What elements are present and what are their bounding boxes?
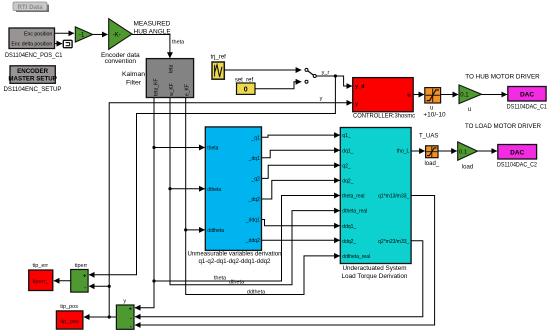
sum block tiperr (71, 263, 88, 292)
block DAC DS1104DAC_C1 (507, 87, 547, 111)
svg-text:tiperr_: tiperr_ (32, 279, 49, 285)
gain -K- Encoder data convention (101, 19, 140, 65)
svg-text:+: + (129, 306, 132, 312)
svg-text:theta: theta (207, 146, 218, 152)
svg-text:trj_ref: trj_ref (211, 55, 227, 61)
wire gain to DAC load (478, 150, 497, 152)
svg-text:DAC: DAC (510, 150, 524, 157)
svg-text:q1_: q1_ (342, 133, 351, 139)
gain 0.1 u (459, 85, 482, 113)
svg-text:theta: theta (214, 276, 227, 282)
wire set_ref to switch (255, 82, 301, 89)
wire Enc delta position to terminator (55, 43, 63, 45)
svg-text:q2*m23/m33_: q2*m23/m33_ (378, 239, 409, 245)
svg-text:y_r: y_r (322, 70, 330, 76)
svg-text:MEASURED: MEASURED (134, 20, 171, 27)
signal generator trj_ref (211, 55, 227, 79)
svg-text:u: u (468, 107, 471, 113)
svg-text:dtheta: dtheta (207, 187, 221, 193)
wire tho_L to saturation load_ (411, 150, 425, 152)
svg-text:convention: convention (105, 58, 137, 65)
svg-text:dq2_: dq2_ (342, 179, 353, 185)
wire y_r (switch to controller y_d) (316, 70, 352, 86)
label MEASURED HUB ANGLE (134, 20, 172, 35)
svg-text:TO HUB MOTOR DRIVER: TO HUB MOTOR DRIVER (465, 74, 540, 81)
manual switch (305, 68, 316, 83)
wire Enc position to gain -1 (55, 32, 74, 34)
wire q1*m13/m33_ return loop (135, 196, 435, 326)
wire gain to DAC hub (482, 94, 507, 96)
svg-text:DS1104DAC_C1: DS1104DAC_C1 (507, 104, 547, 111)
svg-text:load_: load_ (424, 161, 439, 167)
svg-text:q1*m13/m33_: q1*m13/m33_ (378, 194, 409, 200)
block DS1104ENC_POS_C1 (5, 28, 63, 59)
saturation load_ (424, 146, 439, 167)
svg-text:dtheta: dtheta (229, 280, 245, 286)
wire _q1 to q1_ (262, 135, 340, 137)
svg-text:Enc delta position: Enc delta position (11, 42, 52, 48)
svg-text:TO LOAD MOTOR DRIVER: TO LOAD MOTOR DRIVER (465, 123, 541, 130)
svg-text:tho_L: tho_L (397, 148, 410, 154)
svg-text:Underactuated System: Underactuated System (343, 265, 407, 272)
wire tiperr output to tiperr_ (54, 280, 71, 282)
svg-text:ddtheta: ddtheta (247, 289, 266, 295)
wire u (controller to saturation) (413, 94, 424, 96)
RTI Data badge (13, 2, 49, 12)
wire y sum output to tip_pos (84, 315, 116, 318)
wire _ddq1 to ddq1_ (262, 220, 340, 226)
wire y_r branch to tiperr + (89, 76, 335, 275)
wire theta (gain -K- to Kalman Filter) (132, 34, 185, 57)
wire teta_KF riser (135, 98, 156, 308)
svg-text:theta: theta (172, 40, 185, 46)
svg-text:DS1104ENC_POS_C1: DS1104ENC_POS_C1 (5, 52, 63, 59)
wire saturation to gain 0.1 (load) (438, 150, 457, 152)
block DAC DS1104DAC_C2 (497, 145, 537, 169)
scope block tip_pos (56, 304, 83, 329)
wire saturation to gain 0.1 (hub) (441, 94, 459, 96)
svg-text:T_UAS: T_UAS (419, 134, 438, 140)
svg-text:RTI Data: RTI Data (17, 4, 43, 11)
svg-text:-: - (130, 315, 132, 321)
svg-text:dtheta_real: dtheta_real (342, 209, 367, 215)
svg-text:Enc position: Enc position (24, 31, 52, 37)
block CONTROLLER:3hosmc (353, 78, 416, 120)
saturation u +10/-10 (423, 88, 446, 119)
wire _dq1 to dq1_ (262, 150, 340, 158)
svg-text:_q2: _q2 (250, 177, 260, 183)
wire _ddq2 to ddq2_ (262, 239, 340, 241)
svg-text:ddq1_: ddq1_ (342, 224, 356, 230)
svg-text:q2_: q2_ (342, 163, 351, 169)
svg-text:tip_pos: tip_pos (60, 319, 79, 325)
wire gain -1 to gain -K- (93, 33, 108, 35)
svg-text:teta: teta (168, 64, 174, 73)
svg-text:theta_real: theta_real (342, 194, 364, 200)
block Underactuated System Load Torque Derivation (340, 128, 411, 281)
svg-text:-1: -1 (79, 32, 85, 38)
sum block y (116, 299, 134, 330)
svg-text:Filter: Filter (126, 80, 142, 87)
svg-text:tiperr: tiperr (75, 263, 88, 269)
svg-text:e_KF: e_KF (185, 84, 191, 96)
wire _q2 to q2_ (262, 165, 340, 178)
scope block tiperr_ (29, 263, 53, 291)
svg-text:y: y (123, 299, 126, 305)
svg-text:u: u (430, 106, 433, 112)
svg-text:y: y (320, 96, 323, 102)
constant set_ref (235, 77, 255, 94)
svg-text:_q1: _q1 (250, 135, 260, 141)
wire e_KF branch to ddtheta input (186, 229, 205, 231)
svg-text:CONTROLLER:3hosmc: CONTROLLER:3hosmc (353, 112, 416, 119)
block Kalman Filter (122, 59, 194, 98)
svg-text:u: u (407, 92, 410, 98)
wire w_KF branch to dtheta input (170, 188, 205, 190)
wire y riser to controller y (108, 96, 352, 317)
block Unmeasurable variables derivation (188, 127, 282, 265)
wire w_KF riser to dtheta_real (168, 98, 339, 286)
svg-text:+10/-10: +10/-10 (423, 112, 446, 119)
svg-text:_ddq1: _ddq1 (245, 218, 260, 224)
svg-text:ENCODER: ENCODER (17, 68, 48, 75)
svg-text:-: - (130, 324, 132, 330)
svg-text:tip_pos: tip_pos (60, 304, 78, 310)
svg-text:dq1_: dq1_ (342, 148, 353, 154)
wire theta run to theta_real (154, 196, 340, 282)
svg-text:tip_err: tip_err (33, 263, 49, 269)
svg-text:0: 0 (244, 87, 248, 94)
svg-text:ddtheta: ddtheta (207, 228, 224, 234)
svg-text:-: - (84, 285, 86, 291)
svg-text:q1-q2-dq1-dq2-ddq1-ddq2: q1-q2-dq1-dq2-ddq1-ddq2 (199, 258, 271, 265)
svg-text:set_ref: set_ref (235, 77, 254, 83)
svg-text:DS1104ENC_SETUP: DS1104ENC_SETUP (4, 86, 62, 93)
svg-text:Unmeasurable variables derivat: Unmeasurable variables derivation (188, 251, 282, 258)
svg-text:MASTER SETUP: MASTER SETUP (8, 75, 56, 82)
svg-text:ddq2_: ddq2_ (342, 239, 356, 245)
svg-text:_dq2: _dq2 (248, 197, 260, 203)
svg-text:teta_KF: teta_KF (154, 78, 160, 96)
svg-text:ddtheta_real: ddtheta_real (342, 254, 370, 260)
block ENCODER MASTER SETUP (4, 66, 62, 93)
wire y branch to tiperr - (89, 285, 109, 287)
wire _dq2 to dq2_ (262, 180, 340, 199)
wire trj_ref to switch (224, 69, 301, 71)
svg-text:DS1104DAC_C2: DS1104DAC_C2 (497, 162, 537, 169)
gain -1 (75, 27, 92, 42)
svg-text:_ddq2: _ddq2 (245, 238, 260, 244)
svg-text:DAC: DAC (520, 92, 534, 99)
svg-text:load: load (462, 165, 473, 171)
svg-text:+: + (83, 274, 86, 280)
svg-text:w_KF: w_KF (169, 83, 175, 96)
wire q2*m23/m33_ return loop (135, 241, 423, 317)
svg-text:0.1: 0.1 (460, 93, 469, 99)
wire e_KF riser to ddtheta_real (184, 98, 340, 296)
svg-text:y_d: y_d (355, 84, 364, 90)
svg-text:-K-: -K- (113, 32, 121, 38)
svg-text:Load Torque Derivation: Load Torque Derivation (342, 273, 408, 280)
svg-text:_dq1: _dq1 (248, 156, 260, 162)
wire teta_KF branch to theta input (154, 147, 205, 149)
svg-text:Kalman: Kalman (122, 71, 145, 78)
terminator (63, 40, 72, 47)
svg-text:0.1: 0.1 (459, 149, 467, 155)
gain 0.1 load (458, 142, 478, 171)
